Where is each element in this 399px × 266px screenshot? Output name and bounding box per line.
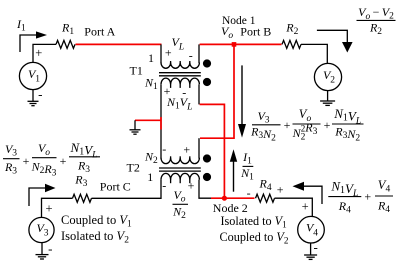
svg-text:+: + xyxy=(188,179,195,193)
formula V4/R4 xyxy=(375,178,393,215)
current arrow into node1->node2 xyxy=(238,65,246,137)
resistor R1 xyxy=(56,40,75,48)
formula V3/(R3N2) xyxy=(250,109,280,144)
formula I1/N1 xyxy=(240,150,254,183)
formula Vo/(N2^2 R3) xyxy=(292,107,321,142)
wire node1 horizontal (red) xyxy=(200,43,282,45)
wire node 2 (red) xyxy=(211,197,255,199)
wire ground tap (red) xyxy=(135,117,161,130)
svg-text:-: - xyxy=(38,86,42,101)
svg-text:+: + xyxy=(302,199,309,213)
wire Port A (red) xyxy=(76,43,162,45)
svg-text:-: - xyxy=(162,178,166,192)
svg-text:+: + xyxy=(277,183,284,197)
svg-text:+: + xyxy=(35,46,42,60)
svg-text:-: - xyxy=(48,241,52,256)
resistor R4 xyxy=(256,194,275,202)
current arrow I1/N1 xyxy=(230,149,237,191)
voltage source V1 xyxy=(19,62,46,89)
wire T1 secondary right terminal xyxy=(198,84,200,104)
junction node 2 xyxy=(222,196,227,201)
svg-text:Isolated to V1: Isolated to V1 xyxy=(221,214,288,230)
wire T1 primary right terminal xyxy=(198,44,200,63)
wire R2 to V2 xyxy=(301,44,327,63)
junction node 1 xyxy=(232,42,237,47)
voltage source V3 xyxy=(29,217,54,242)
voltage source V4 xyxy=(298,216,325,243)
ground V4 xyxy=(304,243,317,259)
wire T1 secondary left terminal down to T2 xyxy=(160,84,162,158)
ground V2 xyxy=(320,91,335,106)
svg-text:+: + xyxy=(284,118,291,132)
formula V3/R3 xyxy=(3,142,20,176)
transformer T1 windings xyxy=(159,61,201,88)
svg-text:+: + xyxy=(324,118,331,132)
formula (Vo-V2)/R2 xyxy=(357,5,396,37)
current arrow (N1VL+V4)/R4 xyxy=(293,182,323,204)
svg-text:Port A: Port A xyxy=(84,24,115,38)
ground mid xyxy=(130,120,141,134)
wire T2 secondary left terminal xyxy=(92,180,162,199)
svg-text:-: - xyxy=(247,186,251,200)
current arrow (Vo-V2)/R2 xyxy=(317,30,353,52)
resistor R3 xyxy=(73,194,92,202)
wire T1 primary left terminal xyxy=(160,44,162,63)
wire R4 to V4 xyxy=(275,198,313,216)
resistor R2 xyxy=(282,40,301,48)
ground V3 xyxy=(36,243,49,259)
svg-text:-: - xyxy=(189,49,193,63)
wire T2 primary right terminal xyxy=(198,138,200,158)
formula Vo/N2 (T2) xyxy=(172,188,188,221)
wire V3 to R3 xyxy=(42,198,73,217)
wire T1 secondary to node 2 branch (red) xyxy=(200,104,225,198)
svg-text:+: + xyxy=(364,190,371,204)
voltage source V2 xyxy=(314,63,341,90)
transformer T2 polarity dots xyxy=(203,154,211,181)
svg-text:-: - xyxy=(314,240,318,255)
svg-text:+: + xyxy=(23,154,30,168)
svg-text:Port C: Port C xyxy=(100,179,131,193)
current arrow I1 xyxy=(20,31,47,52)
svg-text:+: + xyxy=(183,143,190,157)
transformer T2 windings xyxy=(159,156,201,183)
wire T2 secondary right terminal xyxy=(199,180,212,199)
svg-text:1: 1 xyxy=(148,51,154,65)
svg-text:T1: T1 xyxy=(130,64,143,78)
ground V1 xyxy=(28,90,39,106)
current arrow V3 branch xyxy=(29,184,56,206)
formula Vo/(N2R3) xyxy=(31,141,57,179)
wire V1 to R1 xyxy=(33,44,56,62)
svg-text:1: 1 xyxy=(147,170,153,184)
svg-text:Port B: Port B xyxy=(240,25,271,39)
svg-text:+: + xyxy=(45,202,52,216)
svg-text:-: - xyxy=(162,142,166,156)
svg-text:+: + xyxy=(60,154,67,168)
formula N1VL/R4 xyxy=(328,179,361,216)
formula N1VL/(R3N2) xyxy=(332,106,364,144)
svg-text:T2: T2 xyxy=(127,161,140,175)
svg-text:Coupled to V2: Coupled to V2 xyxy=(220,230,289,246)
wire node1 vertical + to T2 (red) xyxy=(200,44,234,138)
formula N1VL/R3 xyxy=(69,140,100,175)
transformer T1 polarity dots xyxy=(203,59,211,86)
